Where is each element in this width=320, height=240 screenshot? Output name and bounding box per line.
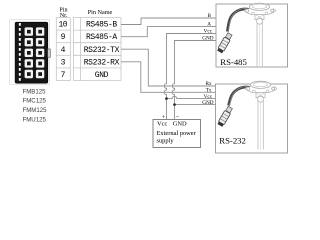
net labels RS-232 side xyxy=(202,81,213,106)
RS-232 sensor box xyxy=(216,84,288,153)
model list labels xyxy=(23,88,48,123)
connector J1 body (10-pin socket) xyxy=(15,22,50,83)
svg-text:GND: GND xyxy=(202,100,213,106)
svg-text:GND: GND xyxy=(95,71,109,80)
sensor plug (RS-485) xyxy=(217,32,233,53)
wire RS485-A to box (net A) xyxy=(121,27,216,37)
RS-485 sensor box xyxy=(216,4,288,67)
svg-text:FMC125: FMC125 xyxy=(23,98,47,105)
head flange xyxy=(244,9,276,15)
svg-text:Vcc: Vcc xyxy=(157,120,167,127)
svg-text:Vcc: Vcc xyxy=(204,29,213,35)
svg-text:FMB125: FMB125 xyxy=(23,88,47,95)
fuel level sensor pictogram (RS-232) xyxy=(245,81,277,102)
polarity marks at supply xyxy=(162,114,180,121)
sensor plug (RS-232) xyxy=(217,106,233,127)
svg-text:RS232-TX: RS232-TX xyxy=(84,46,120,55)
wire RS485-B to box (net B) xyxy=(121,18,216,25)
junction Vcc rail xyxy=(165,97,168,100)
svg-text:B: B xyxy=(208,13,212,19)
wire branch GND to RS-232 sensor xyxy=(175,104,217,106)
pin table header xyxy=(59,8,112,19)
svg-text:Rx: Rx xyxy=(205,81,211,87)
svg-text:4: 4 xyxy=(61,46,66,55)
wire RS232-TX to sensor Rx xyxy=(121,49,216,86)
svg-text:RS-485: RS-485 xyxy=(220,57,247,67)
svg-text:RS-232: RS-232 xyxy=(219,135,246,145)
svg-text:GND: GND xyxy=(173,120,187,127)
pin numbers column xyxy=(58,21,67,80)
svg-text:10: 10 xyxy=(58,21,67,30)
svg-text:RS485-A: RS485-A xyxy=(86,33,117,42)
svg-text:RS232-RX: RS232-RX xyxy=(84,58,120,67)
wire branch Vcc to RS-232 sensor (hop over GND rail) xyxy=(167,96,217,98)
wire GND rail (RS-485 GND, vertical with hops, down to supply -) xyxy=(172,41,216,120)
svg-text:GND: GND xyxy=(202,36,213,42)
wire Vcc rail (RS-485 Vcc, vertical with hops over Rx/Tx, down to supply +) xyxy=(164,34,216,120)
sensor cable (RS-485) xyxy=(227,9,249,32)
pin table grid xyxy=(56,18,121,81)
svg-text:7: 7 xyxy=(61,71,66,80)
svg-text:FMM125: FMM125 xyxy=(23,107,48,114)
svg-text:RS485-B: RS485-B xyxy=(86,21,117,30)
external power supply box PS1 xyxy=(153,120,201,148)
connector photo frame xyxy=(10,20,50,85)
svg-text:FMU125: FMU125 xyxy=(23,117,47,124)
net labels RS-485 side xyxy=(202,13,213,42)
svg-text:3: 3 xyxy=(61,58,66,67)
svg-text:supply: supply xyxy=(157,138,175,145)
svg-text:Pin Name: Pin Name xyxy=(88,9,113,16)
neck clamp xyxy=(255,15,264,20)
svg-text:A: A xyxy=(207,22,211,28)
wire RS232-RX to sensor Tx xyxy=(121,62,216,93)
svg-text:External power: External power xyxy=(157,130,197,137)
sensor tubes (RS-232) xyxy=(258,100,263,150)
svg-text:9: 9 xyxy=(61,33,66,42)
pin names column xyxy=(84,21,120,80)
sensor cable (RS-232) xyxy=(229,87,250,106)
junction GND rail xyxy=(173,103,176,106)
svg-text:Tx: Tx xyxy=(206,88,212,94)
sensor tubes (RS-485) xyxy=(257,22,262,66)
fuel level sensor head (RS-485) xyxy=(244,3,276,24)
